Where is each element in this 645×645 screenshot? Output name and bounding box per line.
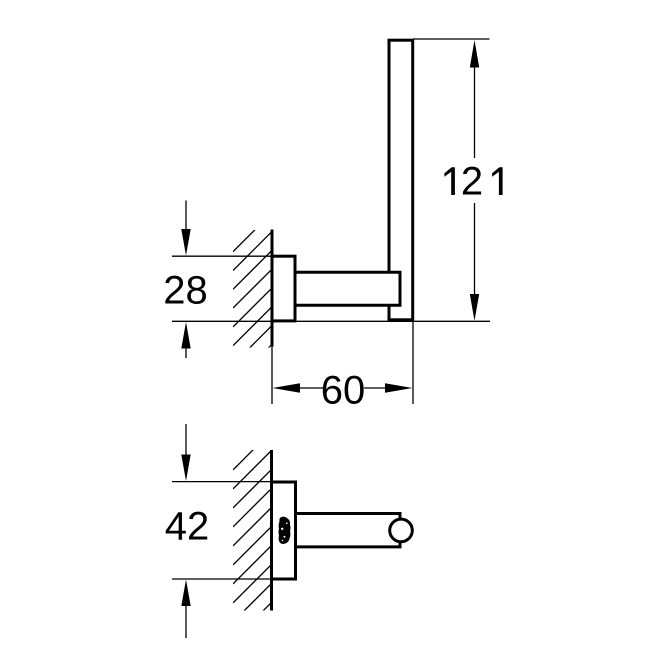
extension line x=413 (60 dim, right) (412, 322, 414, 404)
svg-text:42: 42 (165, 505, 210, 549)
wall hatching (front view) (233, 213, 272, 402)
extension line y=579 (42 dim, bottom) (172, 578, 272, 580)
embossed logo blob on plate (top view) (279, 517, 291, 544)
dim 28: top arrow (185, 201, 187, 233)
wall line (top view) (270, 450, 273, 611)
dim 60: line and arrows (273, 383, 301, 392)
svg-text:60: 60 (321, 369, 366, 413)
arm tube (top view) (296, 514, 401, 547)
extension line x=272 (60 dim, left) (271, 346, 273, 404)
wall line (front view) (271, 230, 274, 347)
dim 42: bottom arrow (185, 604, 187, 638)
extension line y=256 (28 dim, top) (172, 255, 272, 257)
dim 121: label (444, 160, 502, 204)
vertical bar of holder (front view) (389, 40, 413, 320)
dim 121: line and arrows (474, 67, 476, 158)
extension line y=481.5 (42 dim, top) (172, 481, 272, 483)
wall hatching (top view) (233, 431, 272, 645)
extension line y=39 (121 dim, top) (413, 38, 490, 40)
wall plate (top view) (272, 482, 296, 579)
svg-text:2: 2 (461, 160, 483, 204)
bar end circle (top view) (390, 519, 413, 542)
svg-text:28: 28 (163, 269, 208, 313)
dim 28: bottom arrow (185, 348, 187, 358)
wall plate (front view) (272, 256, 295, 321)
dim 42: top arrow (185, 424, 187, 457)
extension line y=321.5 (28 dim bottom / 121 dim bottom) (172, 320, 490, 322)
horizontal arm (front view) (296, 272, 401, 305)
